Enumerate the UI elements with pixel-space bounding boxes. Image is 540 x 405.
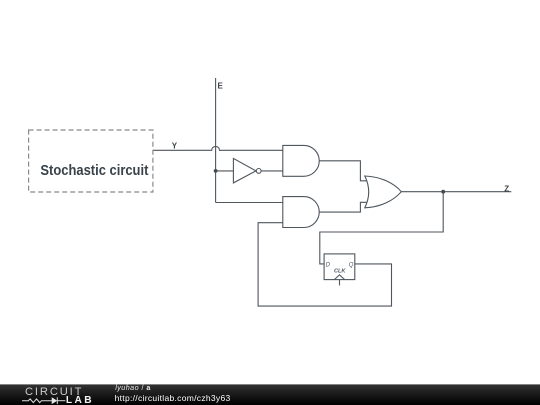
svg-text:lyuhao / a: lyuhao / a (115, 383, 151, 392)
svg-text:CLK: CLK (334, 269, 346, 275)
svg-text:D: D (326, 262, 331, 268)
svg-text:Q: Q (349, 263, 354, 269)
svg-text:Y: Y (172, 142, 178, 151)
svg-text:http://circuitlab.com/czh3y63: http://circuitlab.com/czh3y63 (115, 393, 231, 403)
svg-text:LAB: LAB (66, 395, 94, 405)
svg-text:Stochastic circuit: Stochastic circuit (40, 163, 148, 179)
svg-text:E: E (218, 81, 224, 90)
svg-text:Z: Z (504, 184, 509, 193)
